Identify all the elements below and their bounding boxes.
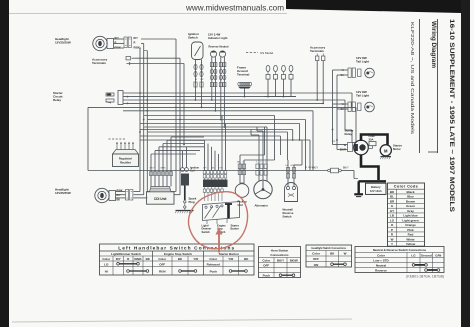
svg-text:Low + STD: Low + STD	[373, 259, 389, 263]
red annotation arrow	[218, 233, 220, 253]
wire trunk x184	[183, 64, 185, 145]
starter cable bridge thick	[361, 135, 388, 145]
wire	[287, 132, 289, 160]
svg-text:BK/Y: BK/Y	[150, 168, 155, 170]
wire cdi pin	[162, 144, 164, 187]
table: Headlight Switch Connections	[306, 245, 352, 267]
regulator rectifier R1	[113, 150, 139, 155]
neutral reverse wires	[287, 160, 289, 186]
svg-text:BK/Y: BK/Y	[343, 167, 349, 170]
alternator	[254, 180, 272, 198]
cdi unit box U1	[147, 192, 175, 204]
headlight upper connector	[124, 37, 127, 48]
ignition switch connectors	[194, 64, 197, 69]
ignition coil	[181, 168, 185, 172]
wire trunk x143.7	[143, 44, 145, 195]
svg-text:R: R	[134, 41, 136, 45]
svg-text:W: W	[344, 252, 347, 256]
svg-text:Black: Black	[406, 190, 414, 194]
junction dots relay	[127, 96, 129, 98]
indicator wires	[211, 57, 213, 100]
svg-text:BK/W: BK/W	[308, 167, 313, 169]
svg-text:Neutral: Neutral	[220, 45, 229, 49]
spark plug wire	[184, 186, 186, 201]
table: Left Handlebar Switch Connections	[100, 244, 255, 275]
svg-text:BL: BL	[390, 195, 394, 199]
pickup coil	[235, 184, 249, 198]
frame ground coil symbol	[238, 82, 241, 85]
svg-text:R/Y: R/Y	[134, 36, 139, 40]
svg-text:Color: Color	[102, 257, 111, 261]
alternator wires	[258, 135, 260, 182]
svg-text:Color: Color	[377, 254, 386, 258]
svg-text:HI: HI	[105, 269, 108, 273]
svg-text:Neutral & Reverse Switch Conne: Neutral & Reverse Switch Connections	[373, 248, 427, 252]
svg-text:Battery: Battery	[371, 185, 381, 189]
battery ground cable thick	[358, 181, 360, 193]
svg-text:Indicator Light: Indicator Light	[208, 36, 227, 40]
bus junction dots	[195, 99, 197, 101]
svg-text:CDI Unit: CDI Unit	[154, 197, 168, 201]
handlebar switch assembly	[203, 202, 240, 221]
wire cdi feed	[155, 150, 200, 152]
spark plug ground bar	[176, 210, 194, 212]
svg-text:12V 14Ah: 12V 14Ah	[370, 189, 382, 193]
svg-text:16-10 SUPPLEMENT - 1995 LATE: 16-10 SUPPLEMENT - 1995 LATE ~ 1997 MODE…	[448, 19, 455, 213]
svg-text:W: W	[391, 237, 394, 241]
svg-text:Horn Button: Horn Button	[271, 249, 289, 253]
headlight lower connector	[126, 190, 129, 201]
frame ground wire	[244, 89, 246, 97]
wire	[204, 140, 206, 170]
tail light vertical wires	[332, 70, 334, 145]
pickup connector	[238, 164, 241, 169]
left black border bar	[0, 0, 9, 327]
svg-text:Red: Red	[408, 233, 414, 237]
svg-text:Yellow: Yellow	[406, 242, 416, 246]
svg-text:BK/Y: BK/Y	[277, 259, 284, 263]
svg-text:R: R	[115, 41, 117, 45]
cdi manifold	[150, 187, 172, 192]
starter motor ground	[381, 156, 392, 158]
wire accessory runs	[136, 57, 180, 59]
starter circuit relay wires	[123, 92, 352, 94]
wire trunk x140	[139, 48, 141, 192]
battery B1	[366, 183, 387, 194]
wire cdi pin	[158, 147, 160, 187]
svg-text:Blue: Blue	[407, 195, 414, 199]
svg-text:Switch: Switch	[202, 230, 211, 234]
wire bus	[147, 119, 305, 121]
wire bus	[144, 115, 275, 117]
svg-text:Plug: Plug	[189, 200, 195, 204]
handlebar connector block	[203, 180, 228, 188]
svg-text:Light/Dimmer Switch: Light/Dimmer Switch	[111, 252, 141, 256]
wire cdi pin	[150, 154, 152, 187]
svg-text:W: W	[195, 79, 197, 81]
svg-text:Switch: Switch	[283, 214, 292, 218]
tail light 1 bulb	[365, 68, 375, 78]
svg-text:30A: 30A	[369, 138, 374, 142]
svg-text:Color: Color	[262, 259, 271, 263]
wire R bend	[141, 43, 144, 45]
table: Color Code	[388, 183, 425, 246]
svg-text:Y: Y	[391, 242, 393, 246]
wire trunk x180	[179, 58, 181, 195]
svg-text:Motor: Motor	[393, 147, 402, 151]
svg-text:R/BK: R/BK	[134, 257, 142, 261]
ignition switch symbol	[192, 42, 204, 60]
tail light 2 connector	[348, 102, 351, 112]
wire	[280, 136, 282, 155]
battery top bar thick	[359, 180, 387, 182]
wire bus	[147, 131, 287, 133]
fuse 30A symbol	[369, 142, 376, 146]
right black border bar	[461, 0, 470, 327]
wire bus	[123, 110, 313, 112]
svg-text:P: P	[391, 228, 393, 232]
main fuse wire	[88, 170, 328, 172]
wire trunk x176 (R/Y both headlights)	[175, 39, 177, 192]
svg-text:Green: Green	[406, 204, 415, 208]
wire	[274, 116, 276, 161]
svg-text:Y/R: Y/R	[193, 257, 199, 261]
wire bus	[140, 139, 310, 141]
svg-text:Relay: Relay	[345, 132, 353, 136]
svg-text:Y/R: Y/R	[332, 141, 336, 143]
wire cdi feed	[171, 136, 204, 138]
wire bus	[140, 135, 281, 137]
svg-text:Y/R: Y/R	[228, 257, 234, 261]
page bottom edge line	[12, 319, 352, 322]
wire	[299, 124, 301, 141]
neutral reverse connector	[286, 168, 289, 173]
headlight lower wires	[116, 191, 126, 193]
svg-text:Coil: Coil	[190, 170, 195, 173]
wire	[305, 120, 307, 171]
starter relay	[354, 140, 369, 155]
svg-text:Neutral: Neutral	[376, 264, 387, 268]
svg-text:Light green: Light green	[402, 218, 419, 222]
indicator bulb 1	[210, 51, 216, 57]
svg-text:Y/R: Y/R	[219, 168, 223, 170]
neutral reverse switch	[285, 183, 298, 202]
regulator dashed stub	[109, 138, 126, 140]
svg-text:BK/R: BK/R	[340, 149, 346, 152]
svg-text:Terminals: Terminals	[92, 61, 106, 65]
wire R/Y to right	[141, 38, 176, 40]
regulator feed bends	[116, 142, 118, 144]
svg-text:BK/W: BK/W	[290, 259, 298, 263]
svg-text:LG: LG	[390, 218, 395, 222]
sidebar rule tick	[428, 151, 438, 153]
wire	[355, 107, 357, 142]
svg-text:Alternator: Alternator	[255, 204, 269, 208]
starter circuit relay connector	[118, 91, 123, 105]
svg-text:ON: ON	[314, 263, 319, 267]
svg-text:LO: LO	[104, 262, 109, 266]
accessory right wires	[316, 61, 318, 100]
svg-text:LG: LG	[411, 254, 416, 258]
svg-text:M: M	[384, 149, 388, 154]
wire cdi pin	[166, 140, 168, 186]
red annotation oval	[188, 192, 247, 249]
svg-text:Gray: Gray	[407, 209, 414, 213]
battery cable thick relay to battery	[361, 155, 379, 180]
svg-text:Headlight Switch Connections: Headlight Switch Connections	[312, 247, 347, 250]
svg-text:Light blue: Light blue	[403, 214, 418, 218]
battery ground bar	[354, 193, 363, 195]
svg-text:Reverse: Reverse	[209, 45, 220, 49]
wire cdi pin	[154, 151, 156, 187]
accessory terminal symbols	[126, 57, 131, 60]
wire	[221, 116, 223, 171]
headlight upper bulb	[93, 36, 107, 50]
terminal group	[266, 65, 270, 71]
switch output stubs	[206, 220, 208, 224]
svg-text:Color: Color	[312, 252, 321, 256]
tail light 1 connector	[348, 68, 351, 78]
svg-text:www.midwestmanuals.com: www.midwestmanuals.com	[185, 3, 284, 13]
ignition switch wires	[195, 60, 197, 101]
headlight lower bulb	[95, 188, 109, 202]
svg-text:OFF: OFF	[313, 257, 319, 261]
svg-text:W/BK: W/BK	[160, 168, 166, 170]
ignition coil wires up	[182, 151, 184, 168]
wire bus	[140, 123, 300, 125]
svg-text:(KEB01-1B7GA, 1B7GB): (KEB01-1B7GA, 1B7GB)	[406, 275, 444, 279]
wire cdi feed	[167, 139, 204, 141]
sidebar rule 1	[437, 19, 439, 153]
svg-text:Switch: Switch	[188, 36, 198, 40]
svg-text:Push: Push	[210, 269, 218, 273]
svg-text:Color: Color	[158, 257, 167, 261]
tail light 1 wires	[333, 69, 349, 71]
svg-text:Ground: Ground	[421, 254, 432, 258]
svg-text:Starter Button: Starter Button	[219, 252, 239, 256]
wire headlight upper stubs	[114, 38, 125, 40]
tail light 2 wires	[333, 103, 349, 105]
us model dashed note	[246, 52, 258, 54]
wire right end bends	[351, 93, 353, 107]
wire bus	[88, 106, 356, 108]
wire R/BK bend	[140, 47, 141, 49]
svg-text:Pink: Pink	[407, 228, 414, 232]
svg-text:G/W: G/W	[290, 165, 294, 167]
wire bus	[144, 126, 265, 128]
sidebar rule 2	[419, 19, 421, 153]
svg-text:Relay: Relay	[53, 98, 61, 102]
svg-text:Reverse: Reverse	[375, 269, 387, 273]
svg-text:R/BK: R/BK	[115, 45, 121, 49]
svg-text:Tail Light: Tail Light	[356, 94, 369, 98]
wire	[225, 124, 227, 171]
svg-text:Button: Button	[231, 227, 240, 231]
starter button plunger	[227, 204, 230, 219]
wire bus	[140, 129, 293, 131]
wire	[218, 154, 220, 171]
svg-text:LG: LG	[285, 165, 288, 167]
svg-text:OFF: OFF	[263, 264, 269, 268]
regulator rectifier pins	[116, 143, 118, 150]
table: Neutral and Reverse Switch Connections	[355, 247, 444, 273]
svg-text:Coil: Coil	[238, 203, 244, 207]
svg-text:Released: Released	[207, 262, 220, 266]
starter relay wires	[333, 144, 348, 146]
indicator bulb 2	[219, 51, 225, 57]
svg-text:Wiring Diagram: Wiring Diagram	[430, 21, 437, 69]
svg-text:BR: BR	[201, 79, 204, 81]
wire	[264, 127, 266, 155]
cdi pin connector row	[150, 172, 153, 176]
wire	[214, 151, 216, 171]
handlebar connector row 1	[203, 171, 206, 174]
svg-text:W: W	[305, 167, 307, 169]
indicator connectors	[210, 63, 213, 67]
handlebar connector row 2	[204, 187, 206, 189]
wire	[207, 144, 209, 171]
svg-text:Brown: Brown	[406, 199, 416, 203]
svg-text:Rectifier: Rectifier	[120, 161, 131, 165]
top-right black border bar	[286, 0, 461, 13]
svg-text:G/W: G/W	[435, 254, 441, 258]
svg-text:12V25/25W: 12V25/25W	[55, 41, 71, 45]
alternator connector	[256, 164, 259, 169]
svg-text:Terminals: Terminals	[310, 49, 324, 53]
svg-text:KLF220-A8 ~, US and Canada Mod: KLF220-A8 ~, US and Canada Models	[410, 22, 415, 135]
svg-text:Color: Color	[209, 257, 218, 261]
svg-text:R/Y: R/Y	[116, 257, 121, 261]
svg-text:BK: BK	[117, 199, 121, 202]
svg-text:GY: GY	[390, 209, 394, 213]
svg-text:R/Y: R/Y	[203, 168, 207, 170]
pickup coil wires	[239, 155, 241, 183]
table: Horn Button Connections	[259, 247, 301, 278]
svg-text:OFF: OFF	[159, 262, 165, 266]
svg-text:Connections: Connections	[270, 253, 288, 257]
tail light 2 bulb	[365, 102, 375, 112]
svg-text:Orange: Orange	[405, 223, 416, 227]
terminal group wires	[267, 79, 269, 97]
svg-text:Regulator/: Regulator/	[119, 156, 133, 160]
wire cdi feed	[159, 146, 204, 148]
svg-text:US Model: US Model	[260, 51, 274, 55]
svg-text:Engine Stop Switch: Engine Stop Switch	[164, 252, 192, 256]
wire cdi feed	[151, 153, 196, 155]
svg-text:Tail Light: Tail Light	[356, 60, 369, 64]
accessory terminal symbols right	[316, 56, 319, 61]
wire	[211, 147, 213, 171]
svg-text:Terminal: Terminal	[237, 73, 249, 77]
svg-text:R/BK: R/BK	[134, 45, 140, 49]
page top edge line	[9, 13, 287, 15]
main fuse symbol	[328, 169, 331, 172]
wire	[312, 111, 314, 171]
svg-text:12V25/25W: 12V25/25W	[55, 191, 71, 195]
wire cdi feed	[163, 143, 204, 145]
svg-text:Color Code: Color Code	[394, 185, 418, 189]
svg-text:Push: Push	[263, 274, 271, 278]
wire cdi pin	[170, 137, 172, 187]
wire trunk x147.3	[146, 51, 148, 198]
wire fuse to battery	[341, 170, 354, 172]
svg-text:White: White	[406, 237, 414, 241]
svg-text:RUN: RUN	[159, 269, 166, 273]
wire	[309, 140, 311, 171]
starter motor	[380, 145, 391, 156]
wire	[292, 130, 294, 141]
